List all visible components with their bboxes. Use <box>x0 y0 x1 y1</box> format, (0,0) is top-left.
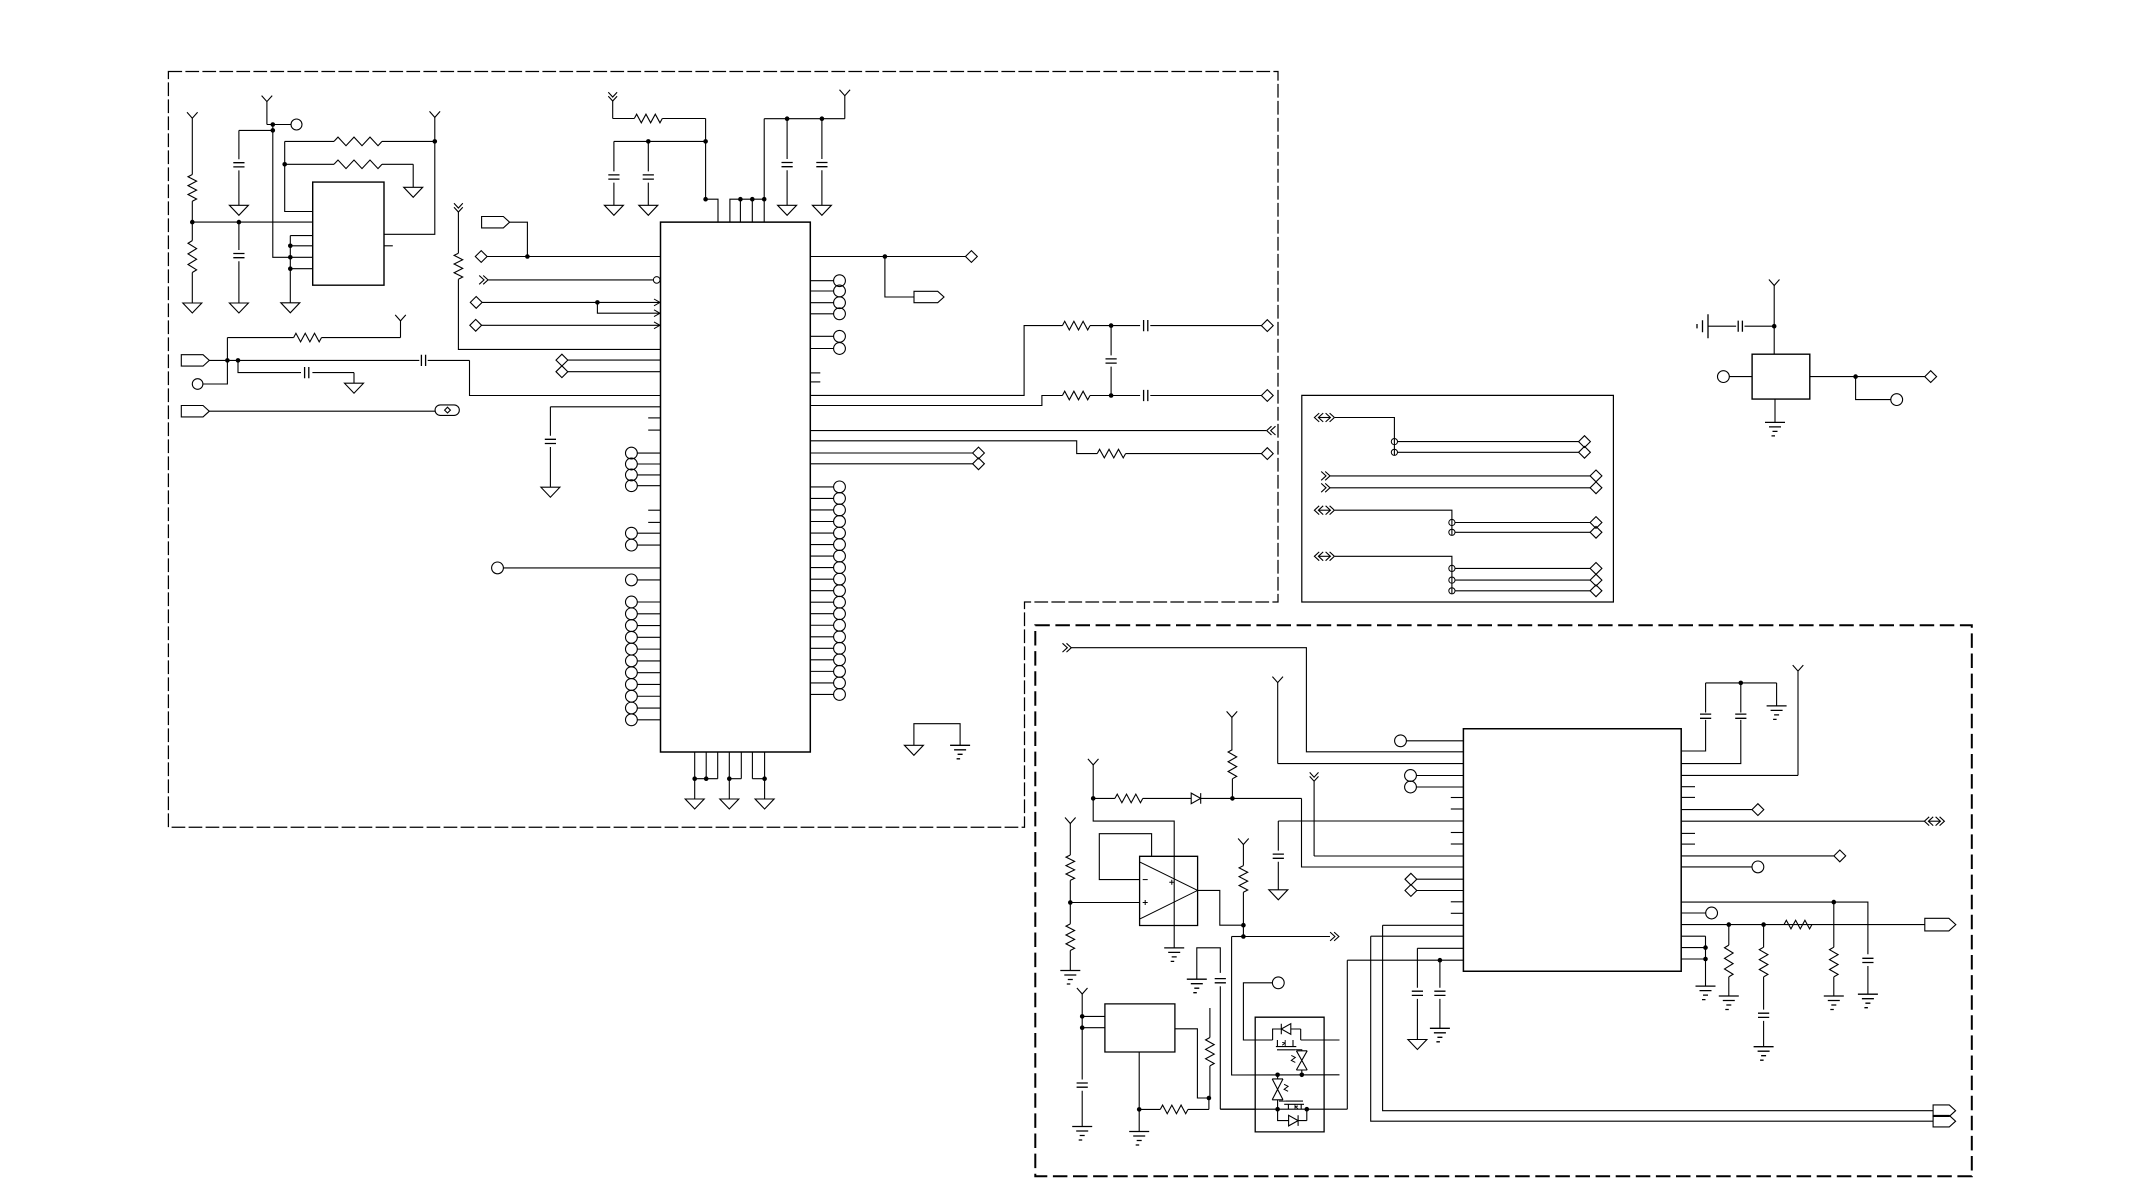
diode D1 <box>1191 793 1232 804</box>
signal arrow <box>1063 643 1072 652</box>
wire <box>1082 1015 1105 1017</box>
diamond node <box>1590 526 1602 538</box>
signal arrow <box>1330 932 1339 941</box>
connector tag T7 <box>1925 918 1956 931</box>
pin circle <box>626 679 661 691</box>
capacitor C20 <box>1758 1013 1769 1046</box>
junction <box>433 139 438 144</box>
pin circle <box>810 631 845 643</box>
pin stub <box>384 245 393 247</box>
IC U3 charger <box>1463 729 1681 972</box>
wire <box>1302 798 1464 867</box>
wire <box>568 359 661 361</box>
bidir port C <box>1314 552 1334 561</box>
capacitor C19 <box>1862 958 1873 994</box>
earth ground <box>1754 1047 1774 1061</box>
pin circle <box>810 308 845 320</box>
diamond node <box>470 319 482 331</box>
pin circle <box>810 493 845 505</box>
wire <box>1455 567 1590 569</box>
pin circle <box>1706 907 1718 919</box>
pin circle <box>192 379 203 390</box>
pin circle <box>810 527 845 539</box>
pin circle <box>1272 977 1284 989</box>
wire <box>1774 399 1776 422</box>
capacitor C12 <box>545 407 556 487</box>
wire <box>482 324 660 326</box>
wire <box>1455 590 1590 592</box>
connector tag T1 <box>482 217 510 228</box>
pin circle <box>1405 781 1464 793</box>
diamond node <box>1834 850 1846 862</box>
junction <box>271 128 276 133</box>
pin stubs U2 left <box>290 236 312 269</box>
wire <box>289 236 291 303</box>
wire <box>470 360 661 395</box>
ground bridge <box>1197 948 1221 979</box>
wire <box>203 360 228 384</box>
wire <box>1330 487 1590 489</box>
earth ground <box>1187 979 1207 993</box>
earth ground <box>1824 996 1844 1010</box>
testpoint oval <box>435 405 459 416</box>
pin stub <box>1681 843 1695 845</box>
pin stub <box>1451 901 1464 903</box>
power flag VDD11 <box>1065 818 1076 856</box>
pin circle <box>1752 861 1764 873</box>
earth ground rotated <box>1697 314 1708 338</box>
wire <box>1681 947 1705 949</box>
mosfet Q2 <box>1279 1101 1304 1109</box>
pin circle <box>291 119 302 130</box>
wire <box>1175 1029 1209 1098</box>
junction <box>1109 323 1114 328</box>
IC U2 <box>313 182 384 285</box>
ground <box>604 205 623 215</box>
wire <box>1705 936 1707 986</box>
wire <box>488 279 653 281</box>
pin circle <box>626 596 661 608</box>
pin circle <box>810 654 845 666</box>
wire <box>1681 958 1705 960</box>
pin circle <box>626 539 661 551</box>
power flag VDD13 <box>1077 988 1088 1016</box>
wire <box>1138 1052 1140 1109</box>
wire <box>810 463 972 465</box>
bidir port A <box>1314 413 1334 422</box>
pin circle <box>626 608 661 620</box>
wire <box>1082 1016 1105 1027</box>
diamond node <box>1590 482 1602 494</box>
pin circle <box>626 469 661 481</box>
junction <box>692 776 766 781</box>
wire <box>209 410 435 412</box>
diamond node <box>973 447 985 459</box>
capacitor C11 <box>421 355 425 366</box>
wire <box>1371 935 1464 937</box>
capacitor C2 <box>233 222 244 303</box>
power rail arrow <box>1310 772 1464 856</box>
wire <box>487 256 660 258</box>
pin stub <box>1451 797 1464 799</box>
tvs Z2 <box>1272 1075 1288 1109</box>
connector tag T5 <box>1933 1105 1956 1117</box>
pin circle <box>810 481 845 493</box>
IC U1 main controller <box>661 222 811 752</box>
wire <box>285 141 313 211</box>
pin circle <box>810 330 845 342</box>
connector tag T2 <box>181 355 209 366</box>
capacitor C14 <box>1273 821 1284 890</box>
pin circle <box>626 643 661 655</box>
pin circle <box>810 642 845 654</box>
wire <box>1681 866 1752 868</box>
wire <box>1335 510 1452 535</box>
pin stub <box>1451 843 1464 845</box>
pin circle <box>810 665 845 677</box>
junction <box>1703 945 1708 961</box>
diode D2 body <box>1273 1024 1301 1040</box>
wire <box>1398 441 1579 443</box>
power flag VDD3 <box>430 111 441 141</box>
wire <box>428 359 470 361</box>
pin circle <box>810 516 845 528</box>
wire rail <box>1232 1074 1340 1076</box>
diamond node <box>973 458 985 470</box>
pin circle <box>626 447 661 459</box>
wire <box>1455 531 1590 533</box>
pin stub <box>810 372 820 374</box>
U1 bottom pin group <box>695 752 765 779</box>
diamond node <box>1405 885 1463 897</box>
wire <box>267 124 291 126</box>
wire <box>810 256 965 258</box>
op-amp U4 <box>1140 856 1198 925</box>
pin circle <box>810 297 845 309</box>
pin circle <box>1405 770 1464 782</box>
wire rail <box>1220 1108 1347 1110</box>
capacitor C22 <box>1077 1028 1088 1127</box>
pin circle <box>1391 449 1397 455</box>
pin circle <box>810 689 845 701</box>
pin stub <box>648 521 660 523</box>
junction <box>282 162 287 167</box>
ground <box>1408 1040 1427 1050</box>
junction <box>785 116 824 121</box>
pin circle <box>1449 565 1455 571</box>
resistor R14 <box>1725 925 1734 996</box>
junction <box>1080 1025 1085 1030</box>
wire <box>1681 774 1798 776</box>
pin circle <box>1718 371 1753 383</box>
pin circle <box>626 480 661 492</box>
diamond node <box>1590 574 1602 586</box>
resistor R21 <box>1139 1098 1209 1114</box>
resistor R12 <box>1093 794 1191 803</box>
capacitor C16 <box>1434 960 1445 1028</box>
wire <box>1242 925 1244 936</box>
wire <box>238 359 419 361</box>
wire <box>1232 936 1244 938</box>
wire <box>1347 959 1463 961</box>
resistor R3 <box>285 137 435 146</box>
resistor R1 <box>188 175 197 223</box>
wire <box>1681 912 1706 914</box>
wire <box>458 279 660 349</box>
wire <box>1681 720 1705 751</box>
pin circle <box>626 631 661 643</box>
ground <box>639 205 658 215</box>
wire rail <box>1706 682 1777 684</box>
junction <box>1275 1107 1309 1112</box>
junction <box>646 139 708 144</box>
earth ground <box>1060 971 1080 985</box>
capacitor C10 <box>238 360 354 383</box>
resistor R6 <box>613 114 706 199</box>
pin circle <box>626 574 661 586</box>
resistor R10 <box>454 253 463 279</box>
ground <box>1269 890 1288 900</box>
junction <box>525 254 530 259</box>
diamond node <box>1925 371 1937 383</box>
junction <box>1091 796 1096 801</box>
pin circle <box>626 667 661 679</box>
diamond node <box>1590 470 1602 482</box>
diamond node <box>1579 446 1591 458</box>
diamond node <box>966 251 978 263</box>
wire <box>1810 376 1925 378</box>
wire <box>1243 983 1272 1040</box>
pin circle <box>810 677 845 689</box>
wire <box>1071 648 1463 752</box>
earth ground <box>1430 1028 1450 1042</box>
capacitor C4 <box>643 141 654 205</box>
signal arrow <box>479 276 488 285</box>
ground tie bridge <box>914 724 960 746</box>
wire <box>597 302 659 313</box>
wire <box>614 140 706 142</box>
wire <box>1070 902 1139 904</box>
resistor R17 <box>1066 855 1075 903</box>
wire <box>764 779 766 799</box>
regulator U5 <box>1105 1004 1175 1052</box>
pin circle <box>626 702 661 714</box>
ground <box>345 383 364 393</box>
junction <box>225 358 240 363</box>
bidir port B <box>1314 506 1334 515</box>
resistor R18 <box>1066 903 1075 971</box>
wire <box>1093 798 1174 948</box>
signal arrow <box>1321 483 1330 492</box>
capacitor C1 <box>233 130 244 205</box>
ground <box>755 799 774 809</box>
wire <box>1330 475 1590 477</box>
resistor R19 <box>1239 866 1248 926</box>
signal arrow <box>1321 472 1330 481</box>
diamond node <box>556 354 568 366</box>
junction <box>1832 900 1837 905</box>
earth ground <box>1767 706 1787 720</box>
wire <box>1681 809 1752 811</box>
ground <box>720 799 739 809</box>
junction <box>1853 374 1858 379</box>
wire <box>1232 937 1256 1076</box>
oscillator X1 <box>1752 354 1810 399</box>
wire <box>1301 1039 1340 1041</box>
wire <box>1776 683 1778 706</box>
earth ground <box>1072 1127 1092 1141</box>
pin circle <box>492 562 661 574</box>
junction <box>1137 1107 1142 1112</box>
junction <box>883 254 888 259</box>
wire <box>810 396 1062 406</box>
pin circle <box>626 655 661 667</box>
capacitor C15 <box>1412 948 1423 1039</box>
diamond node <box>1261 448 1273 460</box>
wire <box>273 125 291 258</box>
earth ground <box>1696 986 1716 1000</box>
wire <box>1681 924 1925 926</box>
junction <box>1109 393 1114 398</box>
junction <box>738 197 766 202</box>
bidir port D <box>1924 817 1944 826</box>
resistor R7 <box>1062 321 1140 330</box>
wire <box>694 779 696 799</box>
wire <box>239 129 273 131</box>
earth ground <box>950 745 970 759</box>
wire <box>1398 451 1579 453</box>
power flag VDD12 <box>1238 839 1249 866</box>
pin circle <box>810 573 845 585</box>
resistor R2 <box>188 222 197 303</box>
wire <box>1681 855 1834 857</box>
connector tag T4 <box>914 291 944 302</box>
pin circle <box>810 504 845 516</box>
wire <box>209 359 238 361</box>
junction <box>1068 900 1073 905</box>
wire <box>1383 924 1464 926</box>
pin stub <box>1451 832 1464 834</box>
power flag VDD4 <box>840 90 851 119</box>
ground <box>281 303 300 313</box>
wire <box>1220 1108 1255 1110</box>
pin circle <box>810 550 845 562</box>
wire <box>384 141 435 234</box>
ground <box>183 303 202 313</box>
resistor R5 <box>227 333 400 342</box>
diamond node <box>1579 436 1591 448</box>
pin stub <box>1681 796 1695 798</box>
wire <box>1745 325 1775 327</box>
ground <box>541 487 560 497</box>
pin circle <box>1449 519 1455 525</box>
wire <box>1681 720 1741 764</box>
power rail arrow <box>608 92 617 118</box>
pin arrow <box>654 322 660 329</box>
capacitor C7 <box>1144 320 1262 331</box>
power flag VDD10 <box>1793 665 1804 775</box>
diamond node <box>1261 320 1273 332</box>
pin circle <box>810 285 845 297</box>
transistor pack U6 <box>1255 1017 1324 1132</box>
wire <box>1417 947 1463 949</box>
wire <box>728 779 730 799</box>
wire <box>1371 936 1933 1121</box>
ground <box>685 799 704 809</box>
power flag VDD6 <box>1769 280 1780 355</box>
junction <box>595 300 600 305</box>
wire <box>1708 325 1736 327</box>
pin circle <box>1449 529 1455 535</box>
diamond node <box>1261 390 1273 402</box>
diamond node <box>1405 873 1463 885</box>
power flag VDD1 <box>187 112 198 174</box>
pin circle <box>1391 439 1397 445</box>
pin circle <box>626 714 661 726</box>
capacitor C13 <box>1738 321 1742 332</box>
junction <box>1727 922 1766 927</box>
junction <box>1230 796 1235 801</box>
pin circle <box>626 620 661 632</box>
wire <box>810 452 972 454</box>
wire <box>510 222 528 256</box>
junction <box>190 220 195 225</box>
pin bubble <box>653 277 660 284</box>
wire <box>1335 556 1452 594</box>
resistor R15 <box>1759 925 1768 1010</box>
power supply / main controller section boundary (dashed) <box>168 72 1278 828</box>
pin circle <box>810 562 845 574</box>
connector block boundary <box>1302 395 1614 602</box>
pin stub <box>648 417 660 419</box>
junction <box>1080 1014 1085 1019</box>
junction <box>1772 324 1777 329</box>
junction <box>1438 958 1443 963</box>
earth ground <box>1164 948 1184 962</box>
mosfet Q1 <box>1276 1040 1302 1051</box>
wire <box>1138 1109 1140 1131</box>
capacitor C8 <box>1144 390 1262 401</box>
connector tag T6 <box>1933 1115 1956 1127</box>
resistor R9 <box>1097 449 1261 458</box>
wire <box>1681 935 1705 937</box>
junction <box>271 122 276 127</box>
pin circle <box>810 596 845 608</box>
pin stub <box>1681 832 1695 834</box>
wire <box>226 338 228 361</box>
pin stub <box>648 429 660 431</box>
wire <box>1681 820 1924 822</box>
capacitor C21 <box>1215 979 1226 1110</box>
earth ground <box>1858 994 1878 1008</box>
power flag VDD9 <box>1088 759 1099 799</box>
power rail arrow <box>454 203 463 253</box>
resistor R20 <box>1206 1008 1215 1098</box>
diamond node <box>475 251 487 263</box>
power flag VDD7 <box>1272 677 1283 764</box>
wire <box>1856 377 1891 400</box>
wire rail <box>764 119 845 200</box>
earth ground <box>1129 1132 1149 1146</box>
diamond node <box>556 366 568 378</box>
pin stub <box>1681 786 1695 788</box>
wire <box>1335 418 1395 456</box>
earth ground <box>1719 996 1739 1010</box>
junction <box>703 197 708 202</box>
ground <box>404 187 423 197</box>
wire <box>1455 579 1590 581</box>
pin circle <box>810 585 845 597</box>
